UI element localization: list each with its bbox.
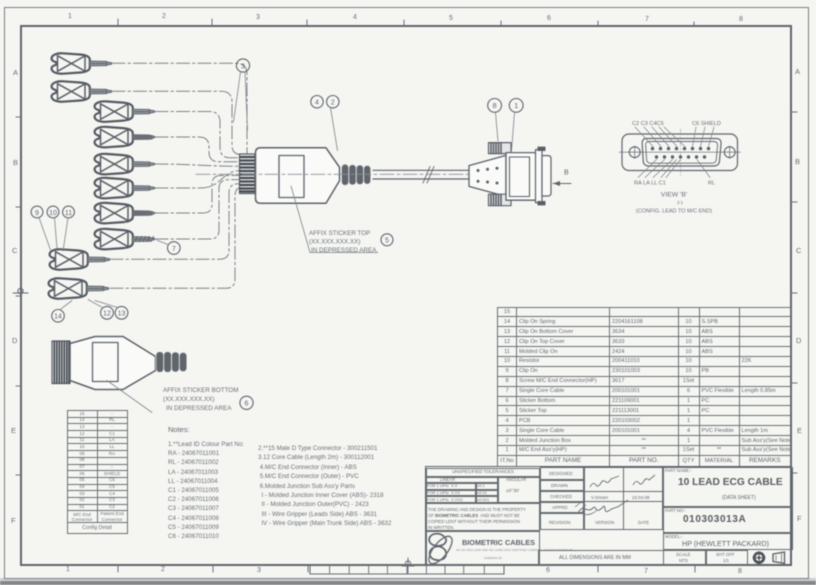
- callout 10: [47, 206, 59, 248]
- flange: [536, 150, 543, 203]
- clip lead 1: [52, 53, 112, 74]
- sheet cell: [706, 550, 748, 566]
- wire clip3: [155, 112, 240, 158]
- callout 2: [327, 96, 339, 151]
- row letters left: [13, 68, 18, 77]
- callout 5: [381, 234, 393, 246]
- model cell: [663, 533, 793, 550]
- clip lead 8: [95, 229, 155, 250]
- scale cell: [663, 550, 706, 566]
- svg-text:C6 SHIELD: C6 SHIELD: [692, 121, 721, 127]
- ruler tick marks bottom: [118, 565, 695, 572]
- clip lead 4: [95, 127, 155, 148]
- svg-text:10: 10: [49, 210, 57, 217]
- wire clip1: [112, 63, 247, 154]
- wire clip9: [110, 184, 240, 259]
- svg-text:3: 3: [241, 63, 245, 70]
- callout 4: [311, 96, 323, 108]
- third angle projection symbols: [748, 550, 792, 566]
- boot with dots: [469, 155, 506, 196]
- svg-text:IN DEPRESSED AREA: IN DEPRESSED AREA: [166, 405, 232, 412]
- svg-text:13: 13: [118, 311, 126, 318]
- callout 14: [52, 301, 72, 323]
- svg-text:(XX.XXX.XXX.XX): (XX.XXX.XXX.XX): [163, 396, 214, 403]
- clip lead 2: [52, 81, 112, 102]
- svg-text:4: 4: [315, 100, 319, 107]
- view b caption: [636, 192, 712, 215]
- junction body: [256, 148, 340, 204]
- machine-end connector side view: [469, 143, 551, 206]
- dark pin on clip 4: [134, 135, 153, 140]
- clip lead 5: [95, 154, 155, 175]
- svg-text:RA LA LL C1: RA LA LL C1: [634, 181, 666, 187]
- svg-text:11: 11: [65, 210, 72, 217]
- svg-text:(CONFIG. LEAD TO M/C END): (CONFIG. LEAD TO M/C END): [636, 209, 712, 215]
- tolerance box: [426, 468, 540, 531]
- svg-text:5: 5: [385, 238, 389, 245]
- centerline through junction: [196, 173, 470, 175]
- property note: [428, 507, 526, 531]
- callout 1: [509, 99, 523, 152]
- ruler tick marks right: [791, 112, 797, 473]
- sticker top rectangle: [279, 156, 304, 198]
- strain relief bumps bottom: [156, 352, 187, 373]
- svg-text:1: 1: [514, 101, 518, 110]
- sticker top leader line: [291, 186, 378, 253]
- sticker top label: [309, 230, 377, 254]
- ruler numbers top: [68, 13, 72, 20]
- svg-text:B: B: [564, 170, 569, 177]
- clip lead 7: [95, 203, 155, 224]
- svg-text:C2 C3 C4C5: C2 C3 C4C5: [632, 121, 664, 127]
- pin leader lines top: [635, 127, 714, 147]
- all dimensions cell: [538, 550, 665, 566]
- wire gripper comb bottom: [52, 341, 70, 384]
- screw hole left: [629, 147, 640, 158]
- svg-text:VIEW 'B': VIEW 'B': [661, 192, 687, 199]
- screw nubs: [538, 147, 546, 151]
- d-shell outline outer: [642, 139, 721, 167]
- callout 6: [240, 396, 253, 409]
- centering mark left: [13, 286, 28, 300]
- scale bar under title block: [300, 560, 520, 580]
- clip lead 3: [95, 101, 155, 122]
- DB15 pins top row: [651, 147, 710, 150]
- clip lead 10: [49, 278, 109, 299]
- dark pin on clip 7: [134, 211, 153, 216]
- pin leader lines bottom: [638, 160, 710, 178]
- svg-text:(XX.XXX.XXX.XX): (XX.XXX.XXX.XX): [309, 239, 360, 246]
- junction body bottom: [70, 337, 156, 390]
- svg-text:AFFIX STICKER TOP: AFFIX STICKER TOP: [309, 230, 370, 237]
- svg-text:AFFIX STICKER BOTTOM: AFFIX STICKER BOTTOM: [163, 387, 238, 394]
- sticker bottom leader line: [107, 381, 152, 413]
- sticker bottom rectangle: [93, 343, 119, 382]
- NOTES: [168, 425, 190, 434]
- wire clip5: [155, 164, 240, 166]
- wire clip8: [155, 180, 240, 239]
- bottom scan strip: [0, 578, 816, 581]
- callout 13: [95, 301, 128, 320]
- pin labels bottom: [634, 181, 715, 187]
- molded junction box bottom view: [52, 337, 187, 390]
- svg-text:14: 14: [54, 314, 62, 321]
- callout 3: [234, 59, 250, 130]
- centering mark bottom: [402, 558, 414, 573]
- svg-text:2:1: 2:1: [677, 200, 684, 205]
- bottom thumbscrew: [489, 194, 512, 206]
- clip lead 6: [95, 178, 155, 199]
- ruler tick marks top: [118, 19, 694, 25]
- d-shell: [542, 156, 551, 196]
- view arrow B: [553, 170, 571, 187]
- screw hole right: [724, 147, 735, 158]
- callout 9: [31, 206, 50, 250]
- wire clip2: [112, 91, 241, 154]
- part name cell: [663, 467, 793, 507]
- wire gripper comb: [240, 154, 256, 194]
- part no cell: [663, 507, 793, 534]
- ruler tick marks left: [16, 117, 21, 475]
- strain relief bumps: [342, 164, 371, 185]
- wires from clips to junction box: [110, 63, 247, 288]
- DB15 pins bottom row: [655, 155, 706, 158]
- logo cell: [426, 531, 540, 566]
- sticker bottom label: [163, 387, 238, 412]
- ruler numbers bottom: [66, 566, 70, 573]
- callout 12: [88, 300, 113, 320]
- callout 8: [488, 99, 502, 142]
- svg-text:7: 7: [172, 246, 176, 253]
- wire clip6: [155, 171, 240, 188]
- callout 7: [157, 240, 180, 254]
- callout 11: [63, 206, 75, 251]
- wire clip10: [110, 188, 240, 288]
- middle signature grid: [540, 467, 663, 530]
- svg-text:8: 8: [493, 101, 497, 110]
- resistor hatch on clip 8 pin: [135, 237, 154, 242]
- wire clip4: [155, 137, 240, 162]
- clip lead 9: [50, 249, 110, 270]
- top thumbscrew: [489, 143, 512, 154]
- wire clip7: [155, 175, 240, 213]
- d-shell outline inner: [646, 142, 718, 164]
- svg-text:12: 12: [103, 311, 111, 318]
- svg-text:9: 9: [35, 210, 39, 217]
- svg-text:2: 2: [331, 100, 335, 107]
- row letters right: [795, 67, 800, 76]
- svg-text:RL: RL: [708, 181, 715, 187]
- svg-text:6: 6: [245, 401, 249, 408]
- VIEW B connector face: [619, 129, 741, 176]
- signatures: [540, 467, 663, 531]
- svg-text:IN DEPRESSED AREA: IN DEPRESSED AREA: [311, 247, 377, 254]
- pin labels top: [632, 121, 721, 127]
- molded junction box (top view): [196, 148, 470, 204]
- connector body: [506, 153, 536, 201]
- biometric cables logo mark: [426, 530, 468, 570]
- flange plate: [622, 134, 738, 171]
- main cable to connector: [373, 170, 469, 179]
